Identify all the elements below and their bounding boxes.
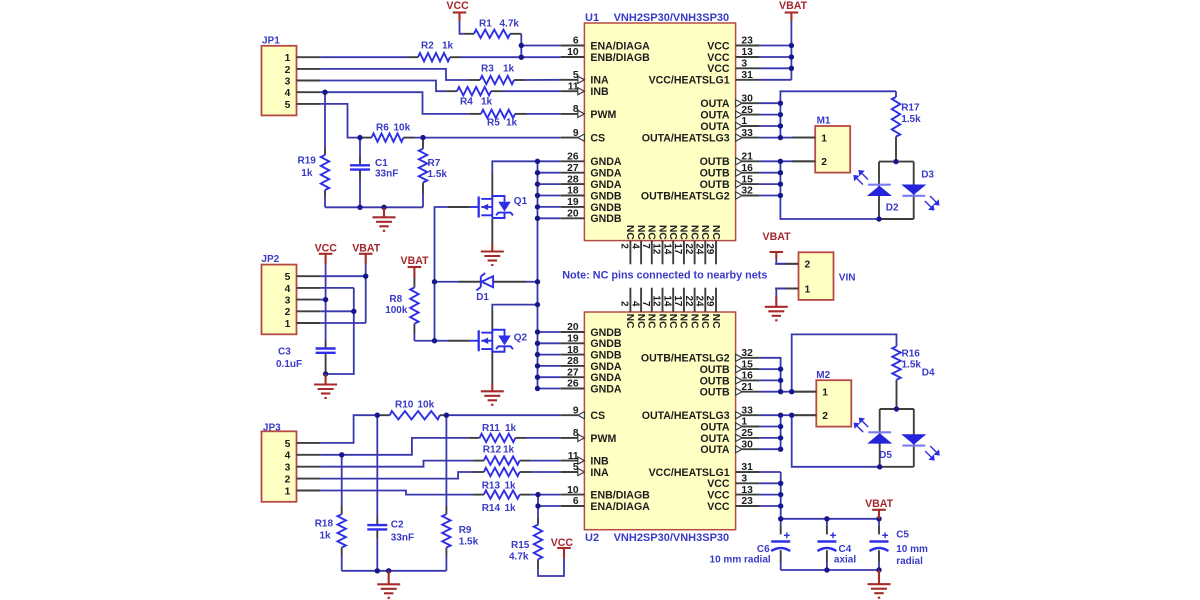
svg-text:OUTB: OUTB: [700, 375, 730, 387]
wire GNDB 19: [538, 206, 561, 208]
wire OUTA 1: [760, 125, 781, 127]
svg-text:25: 25: [741, 105, 753, 116]
node R17/LED: [893, 159, 898, 164]
svg-text:1: 1: [741, 417, 747, 428]
svg-text:2: 2: [619, 301, 630, 307]
svg-text:R5: R5: [487, 118, 500, 129]
svg-text:NC: NC: [699, 225, 710, 240]
svg-text:VCC: VCC: [707, 501, 730, 513]
svg-text:VCC: VCC: [707, 52, 730, 64]
U1 pin 16 OUTB (right): [742, 172, 760, 174]
wire Q1 source: [491, 218, 493, 244]
U2 pin 10 ENB/DIAGB (left): [561, 494, 585, 496]
svg-text:NC: NC: [710, 314, 721, 329]
U1 pin 23 VCC (right): [736, 45, 760, 47]
svg-text:10k: 10k: [418, 400, 435, 411]
ground (Q2 source): [491, 384, 493, 391]
U2 NC pin 12: [662, 288, 664, 312]
svg-text:31: 31: [741, 462, 753, 473]
U2 NC pin 17: [683, 288, 685, 312]
svg-text:C2: C2: [391, 520, 404, 531]
svg-text:1k: 1k: [505, 503, 517, 514]
power VBAT (top right): [785, 11, 799, 13]
wire U2 OUTA 1: [760, 426, 781, 428]
wire U2 OUTB vertical: [760, 358, 781, 392]
svg-text:1k: 1k: [503, 445, 515, 456]
U2 pin 5 INA (left): [561, 471, 578, 473]
wire R10 leads: [377, 414, 390, 416]
svg-text:VIN: VIN: [839, 273, 856, 284]
IC U2 VNH2SP30/VNH3SP30 body: [584, 312, 735, 530]
svg-text:26: 26: [567, 379, 579, 390]
wire JP2.5 to VBAT: [321, 275, 366, 277]
svg-text:15: 15: [741, 359, 753, 370]
wire JP2 gnd vertical: [326, 288, 354, 374]
svg-text:24: 24: [694, 243, 705, 254]
wire R9 bottom lead: [445, 548, 447, 557]
svg-text:VCC: VCC: [446, 0, 469, 12]
U2 NC pin 29: [715, 288, 717, 312]
wire U1 GND pins vertical: [537, 161, 539, 388]
svg-text:GNDB: GNDB: [590, 350, 622, 362]
svg-text:GNDA: GNDA: [590, 168, 622, 180]
svg-text:OUTB: OUTB: [700, 387, 730, 399]
ground (VIN): [775, 296, 777, 307]
U2 pin 33 OUTA/HEATSLG3 (right): [742, 414, 760, 416]
wire JP2.1: [321, 322, 366, 324]
svg-text:PWM: PWM: [590, 433, 616, 445]
svg-text:24: 24: [694, 295, 705, 306]
svg-text:OUTA: OUTA: [700, 433, 730, 445]
resistor R15 4.7k: [534, 525, 542, 560]
svg-text:30: 30: [741, 439, 753, 450]
U1 pin 11 INB (left): [561, 90, 578, 92]
U2 pin 3 VCC (right): [736, 482, 760, 484]
svg-text:1k: 1k: [481, 97, 493, 108]
svg-text:NC: NC: [624, 225, 635, 240]
svg-text:5: 5: [285, 439, 291, 450]
resistor R13 1k: [484, 468, 520, 476]
svg-text:ENB/DIAGB: ENB/DIAGB: [590, 490, 650, 502]
svg-text:radial: radial: [896, 556, 923, 567]
U1 pin 10 ENB/DIAGB (left): [561, 56, 585, 58]
wire C2 top lead: [376, 415, 378, 517]
U2 pin 28 GNDA (left): [561, 365, 585, 367]
node caps rail VBAT: [876, 516, 881, 521]
wire U2 OUTA 30: [760, 448, 781, 450]
svg-text:OUTB/HEATSLG2: OUTB/HEATSLG2: [641, 353, 730, 365]
wire VCC 3: [760, 67, 792, 69]
node R1/ENA: [519, 43, 524, 48]
svg-text:16: 16: [741, 371, 753, 382]
svg-text:GNDA: GNDA: [590, 156, 622, 168]
power VBAT (R8): [408, 266, 422, 268]
capacitor C2 33nF: [367, 524, 387, 526]
node C3 bottom: [323, 371, 328, 376]
svg-text:Note: NC pins connected to nea: Note: NC pins connected to nearby nets: [562, 270, 767, 282]
svg-text:11: 11: [568, 81, 579, 92]
svg-text:C6: C6: [757, 544, 770, 555]
svg-text:JP1: JP1: [262, 36, 280, 47]
wire LED D2 D3 frame: [879, 161, 914, 163]
svg-text:VBAT: VBAT: [779, 0, 808, 12]
node U2 OUTB16: [778, 378, 783, 383]
wire VIN.1 to ground: [786, 288, 799, 290]
node OUTB15: [778, 181, 783, 186]
svg-text:OUTA/HEATSLG3: OUTA/HEATSLG3: [642, 133, 730, 145]
svg-text:OUTB: OUTB: [700, 179, 730, 191]
wire JP3.5 to R10: [321, 415, 378, 443]
svg-text:100k: 100k: [385, 305, 408, 316]
node OUTA1: [778, 123, 783, 128]
node R14/ENB: [535, 492, 540, 497]
node GNDB18: [535, 193, 540, 198]
U2 pin 32 OUTB/HEATSLG2 (right): [742, 357, 760, 359]
wire C1 bottom lead: [359, 170, 361, 178]
node JP2.3/VCC: [323, 297, 328, 302]
svg-text:7: 7: [640, 301, 651, 307]
U2 pin 21 OUTB (right): [742, 391, 760, 393]
svg-text:4: 4: [285, 284, 291, 295]
svg-text:M1: M1: [817, 116, 831, 127]
svg-text:30: 30: [741, 93, 753, 104]
svg-text:axial: axial: [834, 555, 856, 566]
wire R6 leads: [360, 137, 372, 139]
wire JP2.4: [321, 287, 354, 289]
svg-text:CS: CS: [590, 410, 605, 422]
svg-text:GNDA: GNDA: [590, 361, 622, 373]
JP3 pin 2: [297, 478, 321, 480]
LED D3: [902, 195, 925, 197]
svg-text:VCC: VCC: [707, 63, 730, 75]
svg-text:OUTA: OUTA: [700, 421, 730, 433]
wire C3 top lead: [325, 340, 327, 348]
wire R17 top lead: [895, 91, 897, 97]
svg-text:2: 2: [821, 157, 827, 168]
svg-text:ENA/DIAGA: ENA/DIAGA: [590, 501, 650, 513]
wire OUTA 25: [760, 114, 781, 116]
wire OUTB rail to R16: [792, 334, 897, 391]
wire R18 bottom lead: [341, 548, 343, 557]
diode D1 zener: [482, 276, 494, 287]
svg-text:11: 11: [568, 451, 579, 462]
U1 NC pin 24: [704, 241, 706, 265]
wire OUTB 15: [760, 183, 781, 185]
node ENA/R15: [535, 503, 540, 508]
node U2 VCC23: [778, 503, 783, 508]
wire caps top rail: [781, 518, 879, 520]
svg-text:VCC: VCC: [315, 242, 338, 254]
wire ENB-ENA tie: [537, 495, 539, 506]
svg-text:3: 3: [285, 296, 291, 307]
U1 pin 6 ENA/DIAGA (left): [561, 45, 585, 47]
svg-text:INA: INA: [590, 467, 609, 479]
U2 pin 26 GNDA (left): [561, 388, 585, 390]
U2 pin 18 GNDB (left): [561, 354, 585, 356]
svg-text:1k: 1k: [320, 531, 332, 542]
svg-text:VCC: VCC: [707, 40, 730, 52]
wire U2 OUTB 21: [760, 391, 781, 393]
U1 NC pin 12: [662, 241, 664, 265]
transistor Q2 N-MOSFET: [470, 340, 479, 342]
U2 pin 27 GNDA (left): [561, 376, 585, 378]
ground (JP3 rail): [388, 571, 390, 585]
svg-text:Q1: Q1: [514, 196, 528, 207]
wire VBAT to VIN.2: [776, 259, 786, 264]
LED D4: [902, 445, 925, 447]
svg-text:3: 3: [741, 59, 747, 70]
U2 pin 1 OUTA (right): [742, 426, 760, 428]
wire Q1 gate: [435, 207, 449, 282]
svg-text:R3: R3: [481, 64, 494, 75]
wire VCC 13: [760, 56, 792, 58]
capacitor C5 10mm radial: [870, 540, 889, 542]
node JP3 gnd rail: [386, 568, 391, 573]
resistor R4 1k: [457, 87, 491, 95]
JP2 pin 1: [297, 322, 321, 324]
U2 pin 20 GNDB (left): [561, 331, 585, 333]
node U2 GNDB18: [535, 352, 540, 357]
wire gate net vertical: [434, 282, 436, 341]
svg-text:GNDB: GNDB: [590, 327, 622, 339]
connector M1 body: [815, 126, 850, 173]
transistor Q1 N-MOSFET: [470, 206, 479, 208]
svg-text:GNDA: GNDA: [590, 383, 622, 395]
svg-text:OUTA: OUTA: [700, 121, 730, 133]
U2 pin 16 OUTB (right): [742, 379, 760, 381]
svg-text:R7: R7: [428, 158, 441, 169]
node OUTA25: [778, 112, 783, 117]
U1 NC pin 14: [672, 241, 674, 265]
svg-text:ENB/DIAGB: ENB/DIAGB: [590, 52, 650, 64]
svg-text:R19: R19: [298, 156, 317, 167]
U1 pin 21 OUTB (right): [742, 160, 760, 162]
U2 pin 15 OUTB (right): [742, 368, 760, 370]
svg-text:GNDB: GNDB: [590, 338, 622, 350]
svg-text:19: 19: [567, 197, 579, 208]
svg-text:VNH2SP30/VNH3SP30: VNH2SP30/VNH3SP30: [614, 532, 730, 544]
wire ground rail under C1: [325, 206, 423, 208]
svg-text:0.1uF: 0.1uF: [276, 359, 302, 370]
svg-text:27: 27: [567, 367, 579, 378]
wire C5 leads: [878, 519, 880, 526]
connector JP2 body: [262, 265, 297, 335]
node U2 OUTB15: [778, 366, 783, 371]
svg-text:4: 4: [629, 301, 640, 307]
wire U2 GNDB 18: [538, 354, 561, 356]
svg-text:R10: R10: [395, 400, 414, 411]
node GNDA27: [535, 170, 540, 175]
capacitor C6 10mm radial: [771, 540, 790, 542]
U2 NC pin 14: [672, 288, 674, 312]
svg-text:25: 25: [741, 428, 753, 439]
node GNDA28: [535, 181, 540, 186]
power VCC (JP2): [319, 253, 333, 255]
wire R1 to ENA/ENB tie: [510, 33, 521, 35]
node C1 top: [357, 135, 362, 140]
wire U2 GNDA 26: [538, 388, 561, 390]
svg-text:3: 3: [285, 76, 291, 87]
node U2 OUTA25: [778, 435, 783, 440]
svg-text:9: 9: [573, 128, 579, 139]
U1 pin 25 OUTA (right): [742, 114, 760, 116]
wire U2 OUTB 15: [760, 368, 781, 370]
svg-text:D5: D5: [879, 450, 892, 461]
U2 pin 6 ENA/DIAGA (left): [561, 505, 585, 507]
svg-text:JP2: JP2: [261, 254, 279, 265]
U1 pin 26 GNDA (left): [561, 160, 585, 162]
U1 pin 27 GNDA (left): [561, 172, 585, 174]
node VCC23: [789, 43, 794, 48]
svg-text:1.5k: 1.5k: [428, 169, 448, 180]
wire JP3.2 to R13 to INA: [321, 472, 473, 479]
wire Q2 drain: [492, 305, 537, 310]
svg-text:1: 1: [822, 388, 828, 399]
svg-text:NC: NC: [624, 314, 635, 329]
node U2 OUTA1: [778, 424, 783, 429]
svg-text:23: 23: [741, 496, 753, 507]
wire LED D4 D5 frame: [880, 408, 914, 410]
svg-text:4: 4: [285, 451, 291, 462]
wire U2 GNDA 28: [538, 365, 561, 367]
svg-text:4.7k: 4.7k: [509, 552, 529, 563]
node JP2.5/VBAT: [363, 274, 368, 279]
wire JP1.4 branch to R19: [324, 92, 326, 148]
wire R8 top lead: [413, 278, 415, 288]
M2 pin 1: [793, 391, 816, 393]
svg-text:22: 22: [683, 243, 694, 254]
U1 pin 33 OUTA/HEATSLG3 (right): [742, 137, 760, 139]
svg-text:C5: C5: [896, 530, 909, 541]
wire R7 bottom lead: [422, 183, 424, 194]
svg-text:1k: 1k: [506, 118, 518, 129]
M2 pin 2: [793, 414, 816, 416]
wire GNDB 20: [538, 217, 561, 219]
svg-text:8: 8: [573, 428, 579, 439]
svg-text:3: 3: [285, 463, 291, 474]
wire U2 OUTB 16: [760, 379, 781, 381]
svg-text:1k: 1k: [505, 423, 517, 434]
node D1/GND net: [535, 279, 540, 284]
svg-text:2: 2: [619, 243, 630, 249]
svg-text:NC: NC: [635, 314, 646, 329]
resistor R19 1k: [321, 155, 329, 190]
node U2 OUTA30: [778, 447, 783, 452]
svg-text:13: 13: [741, 47, 753, 58]
resistor R10 10k: [390, 411, 440, 419]
connector JP1 body: [262, 46, 297, 116]
node OUTB16: [778, 170, 783, 175]
ground (C1 rail): [383, 207, 385, 217]
node R10 left: [375, 413, 380, 418]
wire OUTB 21: [760, 160, 781, 162]
U1 pin 15 OUTB (right): [742, 183, 760, 185]
svg-text:NC: NC: [678, 225, 689, 240]
svg-text:7: 7: [640, 243, 651, 249]
node U2 GNDB19: [535, 341, 540, 346]
svg-text:NC: NC: [678, 314, 689, 329]
ground (caps rail): [878, 570, 880, 584]
svg-text:1.5k: 1.5k: [459, 537, 479, 548]
svg-text:D3: D3: [921, 170, 934, 181]
svg-text:OUTA: OUTA: [700, 444, 730, 456]
M1 pin 2: [792, 160, 815, 162]
node JP2.2 gnd: [351, 309, 356, 314]
wire JP2 VBAT stem: [365, 264, 367, 323]
svg-text:4.7k: 4.7k: [500, 19, 520, 30]
node GNDB20: [535, 216, 540, 221]
svg-text:R11: R11: [482, 423, 500, 434]
svg-text:1k: 1k: [503, 64, 515, 75]
node U2 VCC13: [778, 492, 783, 497]
svg-text:18: 18: [567, 345, 579, 356]
svg-text:12: 12: [651, 295, 662, 306]
node caps gnd C4: [824, 567, 829, 572]
node caps rail C4: [824, 516, 829, 521]
svg-text:13: 13: [741, 485, 753, 496]
svg-text:33nF: 33nF: [375, 169, 398, 180]
JP1 pin 5: [297, 103, 321, 105]
node R10 right: [444, 413, 449, 418]
node OUTA/M1.1: [778, 135, 783, 140]
wire OUTA to LED D4 D5 frame: [792, 415, 880, 467]
node M2.1/R16 rail: [789, 389, 794, 394]
VIN pin 1: [775, 288, 798, 290]
resistor R12 1k: [484, 456, 520, 464]
wire U2 VCC 23: [760, 505, 781, 507]
JP2 pin 5: [297, 275, 321, 277]
ground (Q1 source): [491, 244, 493, 252]
wire caps bottom rail: [781, 569, 879, 571]
svg-text:5: 5: [573, 70, 579, 81]
node U2 GNDA26: [535, 386, 540, 391]
resistor R3 1k: [480, 76, 514, 84]
svg-text:23: 23: [741, 36, 753, 47]
svg-text:27: 27: [567, 163, 579, 174]
JP2 pin 2: [297, 310, 321, 312]
svg-text:NC: NC: [688, 314, 699, 329]
svg-text:NC: NC: [688, 225, 699, 240]
power VBAT (JP2): [359, 253, 373, 255]
node R16/LED2: [894, 406, 899, 411]
svg-text:NC: NC: [646, 225, 657, 240]
svg-text:22: 22: [683, 295, 694, 306]
wire GNDA 27: [538, 172, 561, 174]
U1 pin 30 OUTA (right): [742, 102, 760, 104]
U2 NC pin 4: [640, 288, 642, 312]
VIN pin 2: [775, 263, 798, 265]
JP1 pin 2: [297, 68, 321, 70]
ground (C3): [325, 374, 327, 385]
wire OUTB vertical: [780, 161, 879, 219]
svg-text:R9: R9: [459, 525, 472, 536]
resistor R16 1.5k: [892, 346, 900, 379]
wire C1 top lead: [359, 138, 361, 157]
svg-text:U1: U1: [585, 12, 599, 24]
svg-text:1: 1: [285, 486, 291, 497]
wire JP2.2: [321, 310, 354, 312]
wire C4 leads: [826, 519, 828, 526]
node U2 VCC3: [778, 481, 783, 486]
wire JP1.5 to R6 row: [321, 104, 360, 138]
svg-text:10: 10: [567, 485, 579, 496]
node JP1.4 branch: [322, 90, 327, 95]
wire JP3.3 to R12 to INB: [321, 461, 473, 467]
node gnd rail C1: [381, 205, 386, 210]
svg-text:NC: NC: [667, 225, 678, 240]
svg-text:OUTB: OUTB: [700, 364, 730, 376]
svg-text:20: 20: [567, 322, 579, 333]
